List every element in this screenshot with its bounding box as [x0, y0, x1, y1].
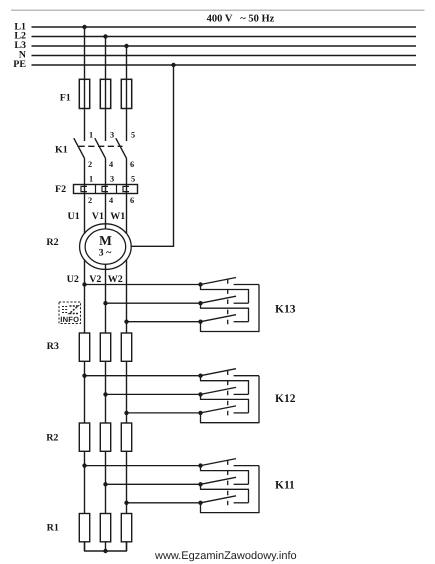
- svg-text:3: 3: [110, 175, 114, 184]
- svg-text:3 ~: 3 ~: [99, 248, 113, 259]
- svg-text:W1: W1: [110, 211, 125, 222]
- svg-text:K13: K13: [275, 303, 296, 315]
- svg-text:2: 2: [88, 196, 92, 205]
- svg-text:400 V ~ 50 Hz: 400 V ~ 50 Hz: [207, 14, 275, 25]
- svg-text:3: 3: [110, 131, 114, 140]
- svg-text:W2: W2: [108, 274, 123, 285]
- svg-text:1: 1: [89, 131, 93, 140]
- svg-text:INFO: INFO: [60, 315, 79, 324]
- svg-text:K12: K12: [275, 393, 296, 405]
- svg-text:6: 6: [130, 196, 134, 205]
- svg-text:V1: V1: [92, 211, 104, 222]
- svg-text:2: 2: [88, 160, 92, 169]
- svg-text:U2: U2: [67, 274, 79, 285]
- svg-text:5: 5: [131, 175, 135, 184]
- svg-text:M: M: [99, 233, 112, 248]
- svg-text:K11: K11: [275, 480, 295, 492]
- svg-text:R2: R2: [46, 433, 58, 444]
- svg-text:K1: K1: [55, 145, 68, 156]
- svg-text:1: 1: [89, 175, 93, 184]
- svg-text:6: 6: [130, 160, 134, 169]
- svg-text:4: 4: [109, 196, 113, 205]
- svg-text:F1: F1: [60, 93, 71, 104]
- svg-text:5: 5: [131, 131, 135, 140]
- svg-text:V2: V2: [89, 274, 101, 285]
- svg-text:PE: PE: [13, 59, 26, 70]
- svg-text:F2: F2: [55, 184, 66, 195]
- svg-text:R2: R2: [46, 237, 58, 248]
- svg-text:U1: U1: [68, 211, 80, 222]
- svg-text:R3: R3: [47, 341, 59, 352]
- svg-text:R1: R1: [47, 523, 59, 534]
- svg-text:4: 4: [109, 160, 113, 169]
- svg-text:www.EgzaminZawodowy.info: www.EgzaminZawodowy.info: [154, 550, 297, 562]
